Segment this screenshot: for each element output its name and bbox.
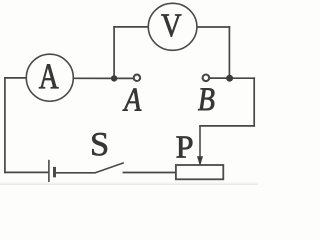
rheostat wiper arrowhead [197, 156, 203, 166]
wire: switch contact to rheostat [123, 172, 176, 174]
wire: node A to terminal A [114, 77, 133, 79]
junction node at B [226, 75, 233, 82]
terminal A (open circle) [134, 75, 140, 81]
wire: right rail down [253, 78, 255, 126]
wire: terminal B to node B [209, 77, 230, 79]
battery cell: long plate [48, 160, 50, 182]
wire: over to rheostat wiper [200, 125, 254, 127]
battery cell: short thick plate [53, 167, 56, 177]
wire: ammeter right lead to node A [73, 77, 114, 79]
wire: battery to switch [56, 172, 95, 174]
scan smudge at bottom edge [0, 0, 1, 1]
wire: left rail down [4, 78, 6, 172]
rheostat wiper arrow stem [199, 126, 201, 157]
junction node at A [111, 75, 117, 81]
wire: voltmeter right lead [197, 26, 230, 28]
ammeter A (letter) [39, 64, 58, 88]
switch S (arm) [95, 163, 124, 173]
label S (switch) [92, 133, 107, 155]
wire: bottom rail to battery [5, 171, 48, 173]
wire: voltmeter left lead [114, 26, 149, 28]
voltmeter V (letter) [161, 15, 181, 37]
rheostat P (resistor body) [176, 165, 223, 179]
label B (terminal) [198, 88, 214, 110]
voltmeter V (circle) [148, 3, 197, 50]
terminal B (open circle) [203, 75, 210, 82]
label P (rheostat) [177, 136, 193, 157]
wire: node B to right rail [230, 77, 255, 79]
wire: ammeter left lead [5, 77, 26, 79]
ammeter A (circle) [26, 54, 73, 101]
wire: voltmeter branch down to node A [113, 27, 115, 79]
wire: voltmeter branch down to node B [228, 27, 230, 78]
label A (terminal) [123, 89, 142, 111]
